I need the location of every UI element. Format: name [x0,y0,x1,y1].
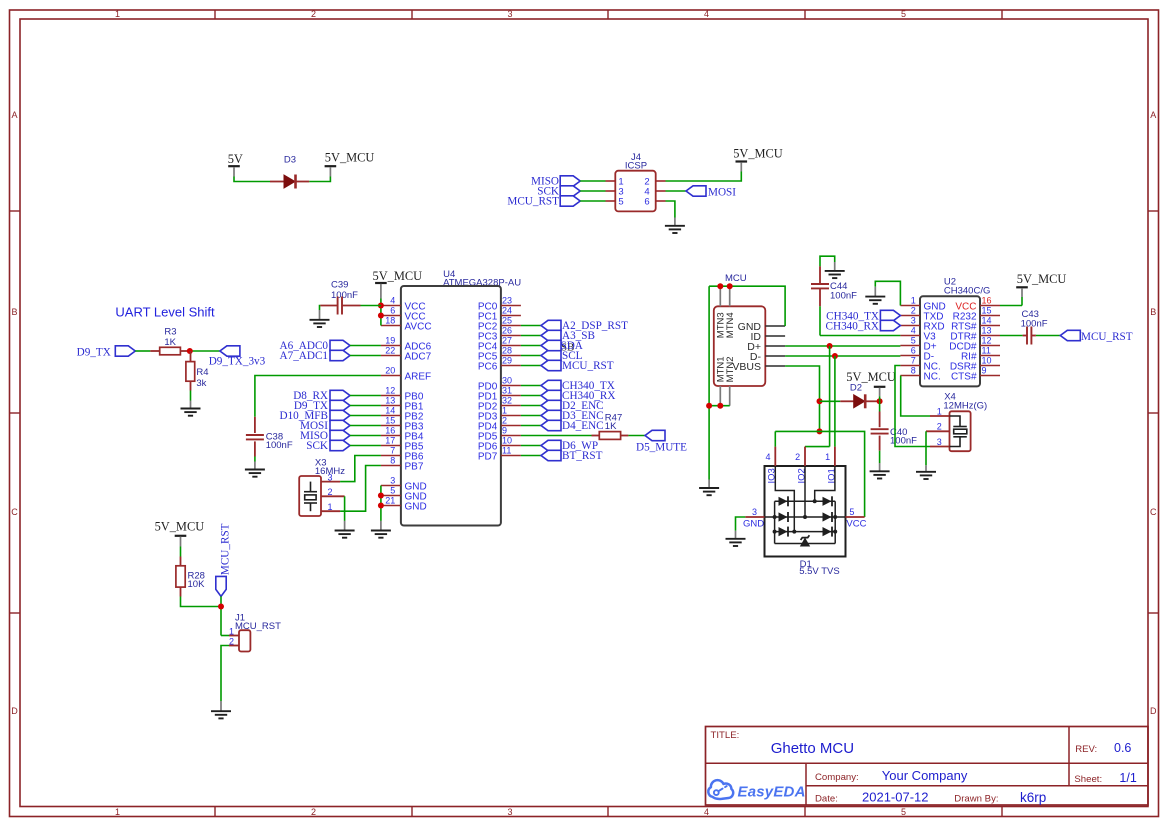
svg-text:D9_TX_3v3: D9_TX_3v3 [209,356,266,368]
D1 junction [773,515,777,519]
wire R4 to ground [190,391,192,401]
svg-text:100nF: 100nF [266,440,293,451]
svg-text:ADC7: ADC7 [405,351,432,362]
wire X4.2 to ground [925,431,927,465]
R3 right pin [180,350,189,352]
wire C40 to ground [879,451,881,463]
MCU pin GND stub [765,325,785,327]
svg-text:R3: R3 [164,326,176,337]
U4 pin 9 (PD5) stub [501,435,521,437]
wire V3 to C44 [820,335,900,337]
svg-text:D: D [11,706,18,716]
R28 top pin [180,557,182,566]
junction (R3/R4) [187,348,193,354]
svg-text:24: 24 [502,306,512,316]
svg-text:12: 12 [982,336,992,346]
C40 bottom pin [879,436,881,451]
svg-text:14: 14 [982,316,992,326]
svg-text:5.5V TVS: 5.5V TVS [799,566,840,577]
junction MTN4 [727,283,733,289]
U4 pin 21 (GND) stub [381,505,401,507]
net flag D4_ENC [541,420,561,430]
svg-text:32: 32 [502,396,512,406]
wire U4 to D3_ENC [521,415,541,417]
wire PD5 to R47 [521,435,592,437]
wire D+ to IO2 [829,346,831,447]
wire U4 to MCU_RST [521,365,541,367]
junction VBUS/TVS [817,428,823,434]
ground (U2 GND) [865,297,885,304]
D1 internal diode R y=501.3 [823,497,832,506]
J4 pin 4 stub [656,190,666,192]
svg-text:31: 31 [502,386,512,396]
D1 junction [813,499,817,503]
title block divider v1 [805,763,807,805]
wire D- to IO1 [834,356,836,447]
ground (R4) [181,409,201,416]
wire D1 GND to ground [736,517,746,531]
svg-text:5V_MCU: 5V_MCU [325,151,375,165]
svg-text:11: 11 [982,346,991,356]
svg-text:3k: 3k [196,378,206,389]
junction VBUS/D2 [817,398,823,404]
D1 IO1 stub (pin1) [834,447,836,466]
wire A7_ADC1 to U4 [350,355,381,357]
R47 right pin [621,435,629,437]
ground (MCU shield) [699,488,719,495]
svg-text:5: 5 [911,336,916,346]
svg-text:11: 11 [502,446,511,456]
svg-text:2: 2 [795,452,800,462]
svg-text:29: 29 [502,356,512,366]
U4 pin 24 (PC1) stub [501,315,521,317]
J4 pin 3 stub [606,190,616,192]
wire AREF to C38 [255,376,381,417]
wire 5V to D3 anode [234,177,270,182]
U2 pin 5 (D+) stub [900,345,920,347]
U4 pin 25 (PC2) stub [501,325,521,327]
U4 pin 18 (AVCC) stub [381,325,401,327]
svg-text:2021-07-12: 2021-07-12 [862,790,929,805]
wire VBUS to IO3 [774,431,776,446]
X4 pin3 stub [930,446,950,448]
svg-text:7: 7 [911,356,916,366]
crystal X4 element [950,416,967,447]
header J1 [239,630,250,651]
wire X3.2 to ground [344,496,346,521]
D1 internal diode array [765,466,846,544]
net flag D3_ENC [541,410,561,420]
svg-text:100nF: 100nF [331,290,358,301]
wire MOSI to U4 [350,425,381,427]
net flag CH340_TX [541,380,561,390]
wire A6_ADC0 to U4 [350,345,381,347]
svg-text:15: 15 [385,416,395,426]
D3 anode pin [270,181,284,183]
svg-text:1: 1 [115,807,120,817]
svg-text:MCU: MCU [725,273,747,284]
D1 IO3 stub (pin4) [774,447,776,466]
C43 left pin [1023,335,1027,337]
wire C44 to ground hook [820,256,835,266]
D2 anode pin [840,400,853,402]
svg-text:Date:: Date: [815,794,838,805]
svg-text:19: 19 [385,336,395,346]
R47 left pin [592,435,600,437]
D1 pin5 stub [846,516,865,518]
MTN pin stubs top [719,286,721,306]
wire shield to ground [708,286,710,479]
J4 pin 2 stub [656,180,666,182]
wire VBUS tee to D1 VCC [820,431,865,517]
column ticks top/bottom [214,10,216,19]
R3 left pin [150,350,159,352]
svg-text:27: 27 [502,336,512,346]
svg-text:3: 3 [507,807,512,817]
U4 pin 20 (AREF) stub [381,375,401,377]
svg-text:12: 12 [385,386,395,396]
svg-text:1: 1 [115,9,120,19]
U4 pin 26 (PC3) stub [501,335,521,337]
U2 pin 2 (TXD) stub [900,315,920,317]
svg-text:2: 2 [937,422,942,432]
svg-text:6: 6 [390,306,395,316]
svg-text:4: 4 [704,807,709,817]
wire R47 to D5_MUTE [628,435,645,437]
svg-text:10K: 10K [188,579,206,590]
D1 internal diode L y=531.6 [779,527,788,536]
svg-text:4: 4 [911,326,916,336]
EasyEDA logo [708,780,805,800]
wire J1.2 to ground [221,646,229,702]
svg-text:EasyEDA: EasyEDA [738,784,806,801]
net flag A3_SB [541,330,561,340]
U2 pin 11 (RI#) stub [980,355,1000,357]
wire U4 to SCL [521,355,541,357]
wire VBUS tee left [775,430,819,432]
wire SCK to J4.3 [580,190,605,192]
D1 IO2 stub (pin2) [804,447,806,466]
svg-text:8: 8 [390,456,395,466]
net flag MOSI [686,186,706,196]
svg-text:k6rp: k6rp [1020,790,1046,805]
svg-text:1: 1 [502,406,507,416]
C44 bottom pin [819,289,821,307]
U4 pin 1 (PD3) stub [501,415,521,417]
wire MCU_RST to J4.5 [580,200,605,202]
U4 pin 31 (PD1) stub [501,395,521,397]
U2 pin 7 (NC.) stub [900,365,920,367]
svg-text:2: 2 [911,306,916,316]
U4 pin 17 (PB5) stub [381,445,401,447]
U2 pin 6 (D-) stub [900,355,920,357]
wire J4.2 to 5V_MCU [666,172,742,182]
D1 junction [833,515,837,519]
U4 pin 7 (PB6) stub [381,455,401,457]
resistor R47 [599,432,620,440]
net flag MCU_RST (C43) [1060,330,1080,340]
J4 pin 5 stub [606,200,616,202]
C38 bottom pin [254,441,256,456]
net flag SCL [541,350,561,360]
U4 pin 22 (ADC7) stub [381,355,401,357]
X3 pin1 stub [321,510,340,512]
svg-text:TITLE:: TITLE: [711,730,740,741]
svg-text:5V_MCU: 5V_MCU [155,520,205,534]
wire VCC-AVCC vertical [380,306,382,326]
junction VCC pin6 [378,313,384,319]
ground (J1) [211,711,231,718]
svg-text:2: 2 [311,9,316,19]
row ticks left/right [10,210,21,212]
wire IO2 link [805,446,830,448]
wire C44 bottom [819,306,821,335]
wire U4 to D2_ENC [521,405,541,407]
svg-text:5V_MCU: 5V_MCU [733,147,783,161]
MCU pin D- stub [765,355,785,357]
svg-text:0.6: 0.6 [1114,741,1131,755]
U4 pin 14 (PB2) stub [381,415,401,417]
diode D1 5.5V TVS body [765,466,846,557]
svg-text:3: 3 [752,507,757,517]
svg-text:GND: GND [405,501,427,512]
wire U4 GND pins [380,486,382,521]
D1 internal zener [800,538,810,547]
svg-text:5V_MCU: 5V_MCU [1017,272,1067,286]
wire D- to U2 [785,355,900,357]
svg-text:12MHz(G): 12MHz(G) [943,400,987,411]
net flag D5_MUTE [645,430,665,440]
wire U4 to A3_SB [521,335,541,337]
R28 bottom pin [180,587,182,596]
svg-text:R4: R4 [196,367,208,378]
U2 pin 3 (RXD) stub [900,325,920,327]
wire D3 cathode to 5V_MCU [309,177,330,182]
svg-text:MOSI: MOSI [708,186,736,198]
svg-text:5: 5 [849,507,854,517]
svg-text:A: A [11,110,17,120]
wire up [1021,297,1023,306]
wire U2.8 to X4.1 [901,376,930,417]
svg-text:6: 6 [644,196,649,207]
X3 pin3 stub [321,481,340,483]
svg-text:A: A [1150,110,1156,120]
U4 pin 6 (VCC) stub [381,315,401,317]
svg-text:VBUS: VBUS [732,361,761,373]
MCU pin ID stub [765,335,785,337]
wire 5V_MCU to R28 [180,547,182,557]
svg-text:18: 18 [385,316,395,326]
diode D2 [854,395,865,408]
wire D9_TX to U4 [350,405,381,407]
wire VBUS down [785,366,819,431]
wire X3.1 to PB7 [340,466,381,512]
junction D2/5V_MCU [877,398,883,404]
svg-text:1: 1 [937,406,942,416]
U2 pin 13 (DTR#) stub [980,335,1000,337]
svg-text:NC.: NC. [924,371,941,382]
net flag D6_WP [541,440,561,450]
wire 5V_MCU down to VCC [380,299,382,306]
U2 pin 8 (NC.) stub [900,375,920,377]
svg-text:VCC: VCC [846,519,866,530]
D3 cathode pin [295,181,309,183]
svg-text:Sheet:: Sheet: [1074,774,1102,785]
wire MTN/GND top [709,286,785,326]
ground (C39) [310,320,330,327]
svg-text:C39: C39 [331,279,348,290]
U2 pin 4 (V3) stub [900,335,920,337]
net flag CH340_RX [541,390,561,400]
net flag D9_TX_3v3 [220,346,240,356]
svg-text:GND: GND [743,519,764,530]
R4 bottom pin [190,381,192,390]
D1 junction [792,530,796,534]
D1 pin3 stub [745,516,764,518]
U2 pin 1 (GND) stub [900,305,920,307]
svg-text:UART Level Shift: UART Level Shift [115,305,215,320]
title block outline [706,727,1149,806]
U4 pin 3 (GND) stub [381,485,401,487]
svg-text:22: 22 [385,346,395,356]
U4 pin 29 (PC6) stub [501,365,521,367]
wire MISO to U4 [350,435,381,437]
svg-text:16: 16 [982,296,992,306]
svg-text:MCU_RST: MCU_RST [562,360,614,372]
svg-text:23: 23 [502,296,512,306]
svg-text:3: 3 [507,9,512,19]
wire U2.7 to X4.3 [895,366,930,447]
wire U4 to D6_WP [521,445,541,447]
X4 pin2 stub [926,430,950,432]
wire C39 to ground [319,306,322,311]
svg-text:A7_ADC1: A7_ADC1 [280,350,328,362]
wire MCU_RST flag to J1.1 [220,596,222,635]
svg-text:PB7: PB7 [405,461,424,472]
crystal X4 body [950,411,971,451]
svg-text:26: 26 [502,326,512,336]
svg-text:5: 5 [901,9,906,19]
MTN pin stubs bottom [719,386,721,406]
U4 pin 5 (GND) stub [381,495,401,497]
X3 pin2 stub [321,495,345,497]
title block divider h2 [806,785,1148,787]
capacitor C44 [811,284,829,288]
capacitor C43 [1027,327,1031,345]
junction GND pin21 [378,503,384,509]
svg-text:13: 13 [385,396,395,406]
wire C43 to MCU_RST [1036,335,1060,337]
capacitor C40 [871,429,889,433]
svg-text:3: 3 [911,316,916,326]
svg-text:3: 3 [937,437,942,447]
junction D- [832,353,838,359]
svg-text:1: 1 [911,296,916,306]
U4 pin 19 (ADC6) stub [381,345,401,347]
U4 pin 15 (PB3) stub [381,425,401,427]
J1 pin2 stub [229,645,239,647]
ground (C40) [870,471,890,478]
junction MTN1 [717,403,723,409]
ground (U4 GND) [371,531,391,538]
svg-text:16: 16 [385,426,395,436]
svg-text:CH340_RX: CH340_RX [826,320,879,332]
MCU pin VBUS stub [765,365,785,367]
svg-text:6: 6 [911,346,916,356]
C40 top pin [879,412,881,428]
svg-text:2: 2 [311,807,316,817]
junction D+ [827,343,833,349]
U4 pin 16 (PB4) stub [381,435,401,437]
J1 pin1 stub [229,635,239,637]
svg-text:10: 10 [982,356,992,366]
title block divider h1 [706,762,1149,764]
D1 internal diode L y=517 [779,512,788,521]
U4 pin 2 (PD4) stub [501,425,521,427]
svg-text:2: 2 [502,416,507,426]
ground (J4.6) [665,226,685,233]
D2 cathode pin [865,400,879,402]
svg-text:AREF: AREF [405,371,432,382]
crystal X3 element [304,482,317,512]
C38 top pin [254,417,256,433]
junction (R28/J1) [218,604,224,610]
svg-text:8: 8 [911,366,916,376]
ground (C44) [825,271,845,278]
svg-text:B: B [11,307,17,317]
J4 pin 6 stub [656,200,666,202]
svg-text:9: 9 [502,426,507,436]
D1 internal diode R y=531.6 [823,527,832,536]
svg-text:5: 5 [390,486,395,496]
wire D8_RX to U4 [350,395,381,397]
svg-text:30: 30 [502,376,512,386]
U4 pin 27 (PC4) stub [501,345,521,347]
U4 pin 30 (PD0) stub [501,385,521,387]
op-amp U4 ATMEGA328P-AU body [401,286,501,526]
wire R3 to D9_TX_3v3 [190,350,220,352]
svg-text:100nF: 100nF [830,291,857,302]
wire U4 to CH340_RX [521,395,541,397]
wire SCK to U4 [350,445,381,447]
junction GND pin5 [378,493,384,499]
wire VCC to 5V_MCU [1000,305,1022,307]
svg-text:1K: 1K [605,421,617,432]
svg-text:5: 5 [901,807,906,817]
svg-text:1: 1 [825,452,830,462]
svg-text:MCU_RST: MCU_RST [220,523,232,575]
ground (X3.2) [335,531,355,538]
svg-text:CTS#: CTS# [951,371,977,382]
resistor R3 [160,347,181,355]
svg-text:Your Company: Your Company [882,768,968,783]
svg-text:4: 4 [765,452,770,462]
transistor U2 CH340C/G body [920,296,980,386]
svg-text:100nF: 100nF [1021,319,1048,330]
title block divider v2 [1068,727,1070,786]
resistor R28 [176,566,185,587]
svg-text:25: 25 [502,316,512,326]
svg-text:MCU_RST: MCU_RST [507,195,559,207]
svg-text:D2: D2 [850,383,862,394]
wire DTR# to C43 [1000,335,1023,337]
svg-text:9: 9 [982,366,987,376]
wire D2 junction to C40 [879,401,881,411]
wire U4 to SDA [521,345,541,347]
svg-text:10: 10 [502,436,512,446]
resistor R4 [186,362,195,382]
svg-text:C: C [11,507,18,517]
